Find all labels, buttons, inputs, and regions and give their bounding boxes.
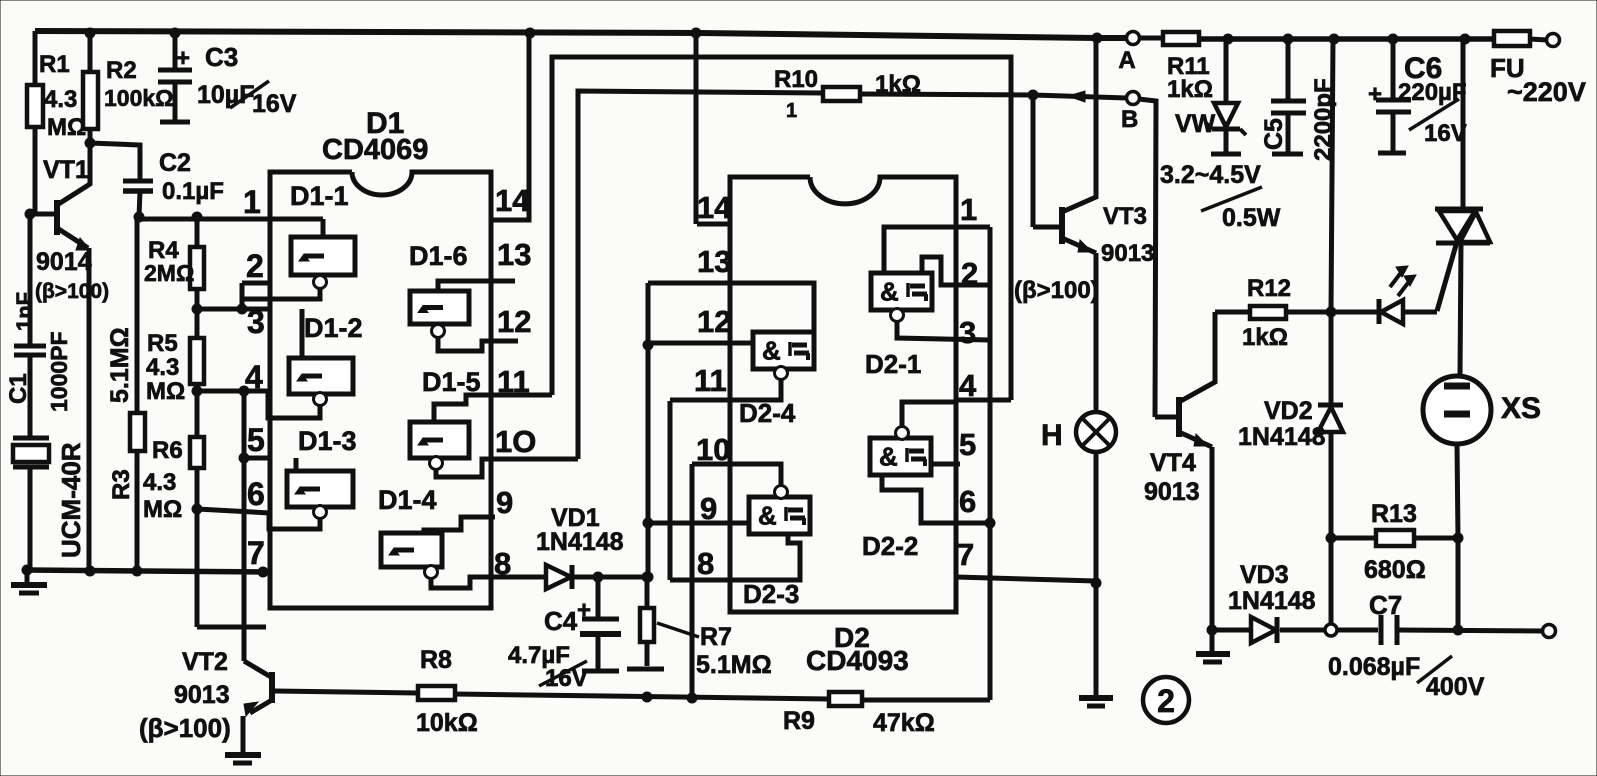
svg-text:10kΩ: 10kΩ [416, 709, 478, 737]
svg-text:D1-2: D1-2 [304, 313, 363, 343]
svg-text:R10: R10 [774, 66, 818, 93]
svg-text:0.5W: 0.5W [1222, 204, 1281, 232]
svg-text:VT3: VT3 [1103, 203, 1147, 230]
svg-text:D2-3: D2-3 [743, 579, 799, 609]
svg-text:6: 6 [959, 484, 976, 519]
svg-text:R3: R3 [108, 469, 135, 500]
svg-text:R9: R9 [783, 707, 815, 735]
svg-text:1O: 1O [495, 424, 536, 459]
svg-text:VT4: VT4 [1150, 449, 1196, 477]
svg-text:D1-3: D1-3 [298, 426, 357, 456]
svg-text:&: & [758, 501, 777, 531]
svg-text:~220V: ~220V [1507, 77, 1586, 107]
svg-text:16V: 16V [1424, 120, 1467, 147]
svg-text:C4: C4 [544, 606, 578, 636]
svg-text:47kΩ: 47kΩ [873, 709, 935, 737]
svg-text:+: + [1368, 81, 1382, 108]
svg-text:4: 4 [245, 359, 263, 395]
svg-text:1N4148: 1N4148 [1238, 423, 1326, 451]
svg-text:1: 1 [243, 184, 261, 220]
svg-text:D1-4: D1-4 [378, 485, 437, 515]
svg-text:R7: R7 [700, 623, 732, 651]
svg-text:VT1: VT1 [43, 156, 89, 184]
svg-text:7: 7 [957, 537, 974, 572]
svg-text:14: 14 [495, 183, 530, 218]
svg-text:16V: 16V [545, 665, 588, 692]
svg-text:R1: R1 [39, 51, 70, 78]
svg-text:12: 12 [697, 304, 731, 339]
svg-text:MΩ: MΩ [47, 114, 86, 141]
svg-text:100kΩ: 100kΩ [104, 85, 174, 111]
svg-text:9013: 9013 [174, 681, 230, 709]
svg-text:R13: R13 [1371, 500, 1417, 528]
svg-text:UCM-40R: UCM-40R [56, 442, 86, 558]
svg-text:5: 5 [247, 422, 265, 458]
svg-text:R12: R12 [1247, 275, 1291, 302]
svg-text:9: 9 [496, 485, 513, 520]
svg-text:(β>100): (β>100) [35, 280, 109, 303]
svg-text:1kΩ: 1kΩ [1242, 324, 1288, 351]
svg-text:C5: C5 [1260, 118, 1288, 150]
svg-text:6: 6 [247, 476, 265, 512]
svg-text:C3: C3 [205, 42, 238, 72]
svg-text:C7: C7 [1369, 590, 1402, 620]
svg-text:5: 5 [959, 427, 976, 462]
svg-text:1kΩ: 1kΩ [1167, 76, 1213, 103]
svg-text:16V: 16V [252, 90, 297, 118]
svg-text:A: A [1118, 47, 1135, 74]
svg-text:B: B [1121, 106, 1138, 133]
svg-text:0.068µF: 0.068µF [1328, 653, 1420, 681]
svg-text:13: 13 [697, 244, 731, 279]
svg-text:1nF: 1nF [12, 292, 37, 331]
svg-text:3: 3 [247, 304, 265, 340]
svg-text:R8: R8 [420, 646, 452, 674]
svg-text:VT2: VT2 [182, 648, 228, 676]
svg-text:1: 1 [960, 192, 977, 227]
svg-text:5.1MΩ: 5.1MΩ [696, 651, 772, 679]
svg-text:MΩ: MΩ [146, 378, 185, 405]
svg-text:1kΩ: 1kΩ [875, 71, 921, 98]
svg-text:2: 2 [246, 248, 264, 284]
svg-text:D1-6: D1-6 [409, 241, 468, 271]
svg-text:0.1µF: 0.1µF [162, 178, 224, 205]
svg-text:CD4093: CD4093 [806, 645, 909, 676]
svg-text:5.1MΩ: 5.1MΩ [106, 327, 134, 403]
svg-text:XS: XS [1501, 392, 1541, 425]
svg-text:4.3: 4.3 [146, 354, 179, 381]
svg-text:8: 8 [697, 546, 714, 581]
svg-text:680Ω: 680Ω [1364, 556, 1426, 584]
svg-text:1N4148: 1N4148 [536, 528, 624, 556]
svg-text:400V: 400V [1426, 673, 1485, 701]
svg-text:4.3: 4.3 [143, 469, 176, 496]
svg-text:VD3: VD3 [1240, 561, 1289, 589]
svg-text:4.3: 4.3 [44, 86, 77, 113]
svg-text:&: & [880, 277, 899, 307]
svg-text:D1-1: D1-1 [290, 181, 349, 211]
svg-text:C1: C1 [5, 373, 32, 404]
svg-text:&: & [762, 336, 781, 366]
svg-text:+: + [176, 45, 190, 72]
svg-text:1N4148: 1N4148 [1228, 587, 1316, 615]
svg-text:(β>100): (β>100) [139, 713, 231, 743]
svg-text:R6: R6 [152, 437, 183, 464]
svg-text:VD2: VD2 [1264, 397, 1313, 425]
svg-text:C2: C2 [159, 149, 191, 177]
svg-text:H: H [1041, 419, 1063, 452]
svg-text:14: 14 [697, 190, 732, 225]
svg-text:13: 13 [497, 237, 531, 272]
svg-text:9014: 9014 [36, 248, 92, 276]
svg-text:3: 3 [959, 315, 976, 350]
svg-text:MΩ: MΩ [143, 496, 182, 523]
svg-text:2MΩ: 2MΩ [144, 260, 194, 286]
svg-text:9013: 9013 [1144, 478, 1200, 506]
svg-text:12: 12 [497, 304, 531, 339]
svg-text:3.2~4.5V: 3.2~4.5V [1160, 161, 1261, 189]
svg-text:R5: R5 [147, 330, 178, 357]
svg-text:&: & [879, 442, 898, 472]
svg-text:7: 7 [247, 535, 265, 571]
svg-text:D2-2: D2-2 [862, 531, 918, 561]
svg-text:CD4069: CD4069 [322, 134, 428, 166]
svg-text:9013: 9013 [1101, 240, 1154, 267]
svg-text:2: 2 [1157, 683, 1175, 719]
svg-text:1000PF: 1000PF [46, 331, 72, 412]
svg-text:(β>100): (β>100) [1014, 277, 1099, 304]
svg-text:D2-1: D2-1 [865, 349, 921, 379]
svg-text:+: + [577, 597, 591, 624]
svg-text:11: 11 [694, 363, 727, 398]
svg-text:VW: VW [1175, 110, 1216, 138]
svg-text:R2: R2 [106, 57, 137, 84]
svg-text:1: 1 [786, 100, 797, 122]
